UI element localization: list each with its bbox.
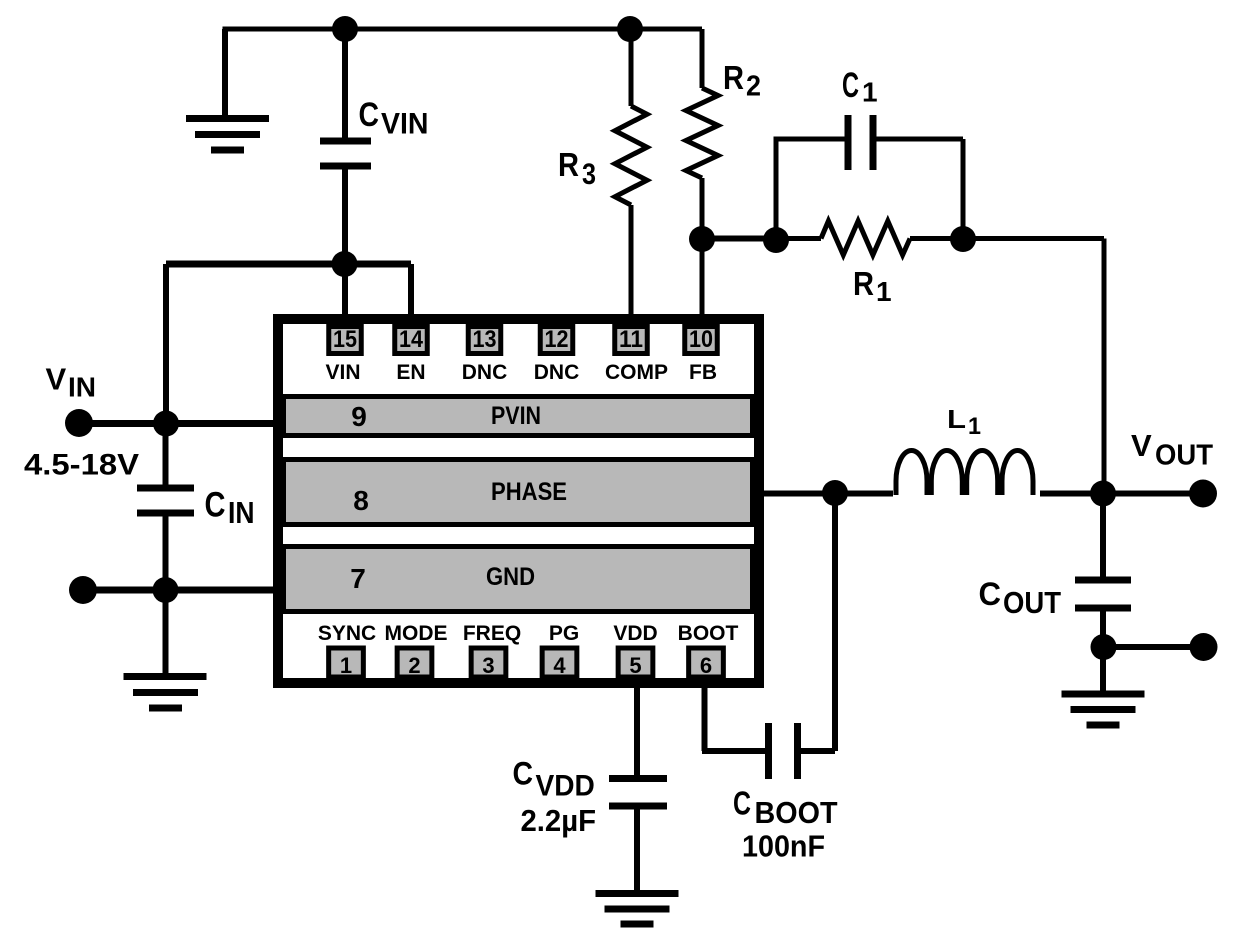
svg-text:C: C	[979, 576, 1002, 612]
wire drop to pin 10	[700, 239, 705, 327]
wire top rail	[223, 27, 703, 32]
node junction C1/R1 left	[763, 227, 789, 253]
wire GND input row	[83, 587, 278, 594]
svg-text:2: 2	[746, 71, 761, 103]
svg-text:C: C	[359, 96, 380, 134]
capacitor CVDD	[609, 779, 667, 894]
svg-text:BOOT: BOOT	[678, 622, 739, 645]
node junction R2 / FB	[689, 226, 715, 252]
svg-text:VDD: VDD	[536, 770, 595, 803]
svg-text:DNC: DNC	[534, 361, 580, 384]
svg-text:4: 4	[553, 653, 566, 678]
capacitor CVIN	[320, 29, 371, 264]
svg-text:FREQ: FREQ	[463, 622, 521, 645]
pin 8 PHASE bar	[284, 460, 753, 525]
svg-text:PHASE: PHASE	[491, 478, 567, 506]
node junction VOUT	[1090, 481, 1116, 507]
wire feedback to VOUT	[963, 239, 1104, 494]
capacitor COUT	[1075, 494, 1131, 648]
ground G3 below CVDD	[596, 894, 679, 925]
svg-text:3: 3	[582, 158, 596, 191]
wire drop to pin 15	[342, 264, 348, 326]
svg-text:R: R	[723, 59, 744, 96]
svg-text:R: R	[558, 146, 579, 183]
svg-text:VDD: VDD	[613, 622, 657, 645]
svg-text:COMP: COMP	[605, 361, 668, 384]
node junction top rail / R3	[617, 16, 643, 42]
inductor L1	[896, 450, 1033, 495]
svg-text:SYNC: SYNC	[318, 622, 376, 645]
svg-text:IN: IN	[68, 372, 96, 403]
pin 11 box	[615, 327, 648, 354]
svg-text:2.2µF: 2.2µF	[521, 803, 597, 838]
node junction CIN gnd row	[153, 577, 179, 603]
node junction VIN row	[153, 411, 179, 437]
capacitor CBOOT	[769, 723, 798, 779]
node junction top rail / CVIN	[332, 16, 358, 42]
wire BOOT branch vertical	[801, 494, 835, 752]
svg-text:PVIN: PVIN	[491, 402, 541, 430]
svg-text:VIN: VIN	[325, 361, 360, 384]
svg-text:EN: EN	[396, 361, 425, 384]
label CVIN	[359, 96, 429, 141]
svg-text:11: 11	[619, 326, 643, 353]
wire pin 6 lead	[702, 683, 766, 751]
svg-text:4.5-18V: 4.5-18V	[24, 449, 139, 482]
ground G4 below COUT	[1062, 694, 1145, 725]
wire FB row	[702, 236, 776, 242]
svg-text:VIN: VIN	[381, 108, 429, 141]
wire L1 to VOUT	[1040, 491, 1203, 497]
pin 1 box	[329, 648, 364, 677]
label VOUT	[1131, 428, 1213, 472]
resistor R2	[686, 29, 718, 239]
svg-text:8: 8	[353, 485, 369, 516]
svg-text:DNC: DNC	[462, 361, 508, 384]
label R2	[723, 59, 761, 103]
pin 14 box	[395, 327, 428, 354]
wire COUT gnd row	[1103, 644, 1203, 650]
svg-text:V: V	[46, 362, 67, 397]
node VIN terminal	[65, 409, 93, 437]
pin 4 box	[542, 648, 577, 677]
svg-text:7: 7	[350, 563, 366, 594]
node terminal right gnd	[1190, 633, 1218, 661]
svg-text:9: 9	[351, 401, 367, 432]
wire VIN/EN row	[166, 261, 411, 268]
svg-text:2: 2	[408, 653, 420, 678]
pin 3 box	[471, 648, 506, 677]
resistor R3	[615, 29, 647, 326]
wire pin 5 lead	[634, 683, 640, 776]
label CVDD	[513, 756, 595, 803]
label VIN	[46, 362, 97, 403]
svg-text:5: 5	[629, 653, 641, 678]
wire VIN input row	[80, 420, 278, 427]
pin 6 box	[689, 648, 724, 677]
svg-text:C: C	[733, 785, 751, 822]
wire left drop to VIN node	[163, 264, 169, 424]
label CIN	[205, 486, 255, 531]
svg-text:1: 1	[862, 77, 878, 108]
svg-text:15: 15	[333, 326, 357, 353]
ground G1 top-left	[186, 119, 269, 151]
pin 10 box	[685, 327, 718, 354]
node junction COUT gnd	[1091, 634, 1117, 660]
pin 12 box	[540, 327, 573, 354]
pin 13 box	[468, 327, 501, 354]
label R1	[853, 265, 892, 307]
wire top-left drop to ground	[222, 29, 228, 119]
IC U1 body	[278, 319, 759, 683]
svg-text:C: C	[205, 486, 226, 525]
label CBOOT	[733, 785, 838, 831]
capacitor C1	[776, 115, 963, 239]
pin 15 box	[329, 327, 362, 354]
svg-text:10: 10	[689, 326, 713, 353]
wire drop to pin 14	[408, 264, 414, 326]
node junction C1/R1 right	[950, 226, 976, 252]
svg-text:L: L	[947, 404, 966, 434]
svg-text:MODE: MODE	[385, 622, 448, 645]
svg-text:R: R	[853, 265, 874, 302]
svg-text:100nF: 100nF	[742, 829, 825, 864]
svg-text:3: 3	[482, 653, 494, 678]
capacitor CIN	[137, 424, 194, 591]
wire CIN to ground	[163, 590, 169, 677]
svg-text:14: 14	[399, 326, 424, 353]
wire COUT to ground	[1100, 647, 1106, 694]
node VOUT terminal	[1189, 480, 1217, 508]
label R3	[558, 146, 596, 191]
svg-text:C: C	[842, 66, 859, 105]
svg-text:GND: GND	[486, 563, 535, 591]
svg-text:FB: FB	[689, 361, 717, 384]
svg-text:V: V	[1131, 428, 1152, 463]
label L1	[947, 404, 981, 440]
svg-text:6: 6	[700, 653, 712, 678]
pin 7 GND bar	[284, 547, 753, 612]
svg-text:IN: IN	[228, 495, 255, 530]
pin 2 box	[397, 648, 432, 677]
pin 9 PVIN bar	[284, 397, 753, 436]
svg-text:BOOT: BOOT	[755, 796, 838, 830]
svg-text:13: 13	[473, 326, 497, 353]
ground G2 below CIN	[124, 677, 207, 709]
svg-text:PG: PG	[549, 622, 579, 645]
node junction PHASE / BOOT	[822, 480, 848, 506]
svg-text:OUT: OUT	[1155, 440, 1213, 472]
svg-text:12: 12	[545, 326, 569, 353]
svg-text:1: 1	[968, 413, 981, 440]
label COUT	[979, 576, 1062, 620]
pin 5 box	[618, 648, 653, 677]
svg-text:OUT: OUT	[1003, 585, 1061, 620]
node junction CVIN / row	[332, 251, 358, 277]
wire PHASE output row	[759, 491, 893, 497]
svg-text:1: 1	[876, 276, 892, 307]
node terminal left gnd	[69, 576, 97, 604]
label C1	[842, 66, 878, 108]
resistor R1	[776, 221, 963, 255]
svg-text:C: C	[513, 756, 534, 792]
svg-text:1: 1	[340, 653, 352, 678]
